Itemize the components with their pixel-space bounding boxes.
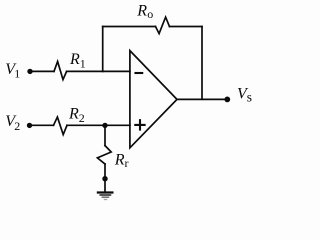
label Rr bbox=[114, 152, 129, 170]
wire R2 to op-amp noninverting input bbox=[67, 124, 130, 126]
wire Rr to ground bbox=[104, 164, 106, 192]
ground bbox=[98, 193, 113, 200]
svg-text:R: R bbox=[136, 3, 147, 20]
svg-text:R: R bbox=[68, 105, 79, 122]
label Ro bbox=[136, 3, 153, 21]
wire R1 to op-amp inverting input bbox=[67, 70, 130, 72]
svg-text:r: r bbox=[125, 156, 129, 170]
junction node R2 / Rr bbox=[102, 123, 107, 128]
label R1 bbox=[69, 51, 86, 71]
svg-text:1: 1 bbox=[80, 57, 86, 71]
wire feedback drop to output bbox=[201, 27, 203, 100]
resistor Rr bbox=[97, 146, 111, 164]
svg-text:2: 2 bbox=[79, 111, 85, 125]
label V1 bbox=[5, 61, 20, 80]
svg-text:R: R bbox=[114, 152, 125, 169]
svg-text:s: s bbox=[247, 89, 252, 104]
noninverting input plus sign bbox=[135, 120, 144, 129]
label V2 bbox=[5, 113, 20, 133]
svg-text:R: R bbox=[69, 51, 80, 68]
inverting input minus sign bbox=[136, 72, 143, 74]
wire V2 terminal to R2 bbox=[30, 124, 54, 126]
op-amp U1 bbox=[130, 51, 177, 148]
wire top, left of Ro bbox=[103, 26, 156, 28]
wire V1 terminal to R1 bbox=[30, 70, 54, 72]
resistor R1 bbox=[54, 62, 67, 80]
label Vs bbox=[237, 86, 252, 105]
label R2 bbox=[68, 105, 85, 125]
resistor Ro bbox=[156, 17, 170, 33]
svg-text:o: o bbox=[147, 7, 153, 21]
terminal node V2 bbox=[27, 123, 32, 128]
wire feedback riser (left) bbox=[102, 27, 104, 72]
svg-text:2: 2 bbox=[14, 119, 20, 133]
output node Vs bbox=[224, 97, 230, 103]
wire junction down to Rr bbox=[104, 125, 106, 145]
resistor R2 bbox=[54, 117, 68, 135]
svg-text:1: 1 bbox=[14, 67, 20, 81]
wire op-amp output bbox=[177, 98, 227, 100]
wire top, right of Ro bbox=[170, 26, 203, 28]
terminal node V1 bbox=[27, 69, 32, 74]
junction node Rr-ground bbox=[102, 176, 107, 181]
